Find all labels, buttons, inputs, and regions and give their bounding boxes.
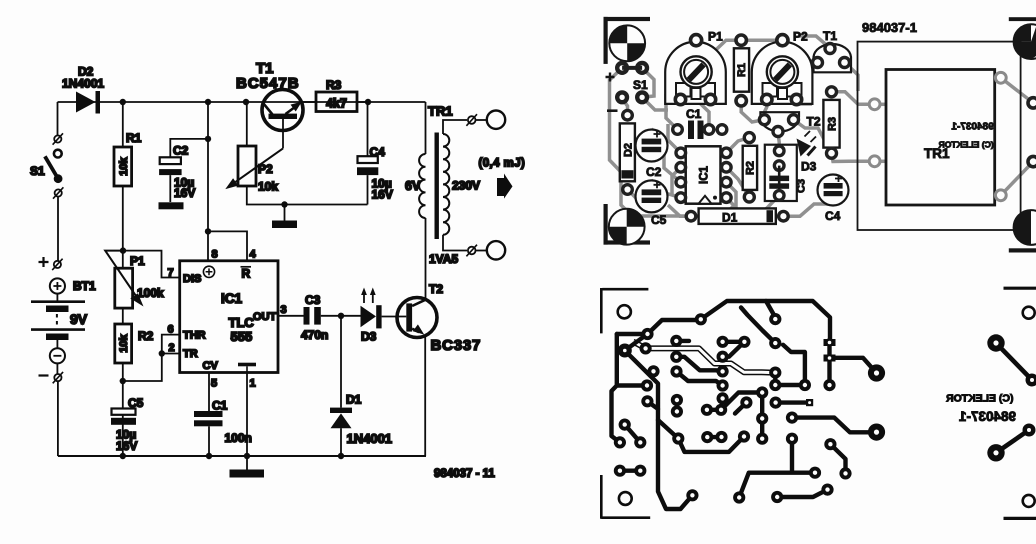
svg-text:1N4001: 1N4001 [347, 431, 393, 446]
wire R1 to P1 [122, 186, 124, 268]
node junction C2 branch top [205, 99, 211, 105]
svg-text:C1: C1 [212, 399, 228, 413]
ground P2/C4 [284, 205, 286, 221]
mirrored copyright on component side [938, 122, 994, 150]
TR1 body outline [886, 70, 995, 206]
svg-text:R2: R2 [745, 161, 757, 175]
wire supply to pin 8 [207, 102, 209, 261]
capacitor C1 100n [194, 399, 252, 446]
wire C2 branch [170, 139, 208, 157]
svg-text:TR1: TR1 [428, 104, 453, 119]
wire left drop to switch [57, 102, 59, 135]
capacitor C5 10u 16V [111, 396, 144, 453]
svg-text:CV: CV [203, 360, 219, 372]
right partial board: mounting hole bottom [1023, 495, 1035, 507]
capacitor C2 10u 16V [159, 144, 195, 201]
wire C1 to rail [208, 426, 210, 456]
svg-text:984037-1: 984037-1 [951, 122, 994, 133]
node junction P1 top [120, 247, 126, 253]
node junction D1 ground [338, 453, 344, 459]
svg-text:D3: D3 [361, 330, 377, 344]
svg-text:R3: R3 [326, 78, 342, 92]
transformer TR1 secondary 230V [443, 134, 449, 235]
svg-text:C3: C3 [305, 293, 321, 307]
svg-text:C5: C5 [128, 396, 144, 410]
trace p46 to square [776, 400, 806, 404]
copper side: corner bracket bottom-left [601, 475, 650, 519]
trace p10 to p32 [677, 372, 723, 386]
svg-text:T2: T2 [807, 115, 821, 129]
PCB corner bracket bottom-left [604, 204, 608, 245]
copper side: mounting hole top-left [618, 305, 631, 318]
wire P2 bottom / ground branch to C4 [247, 186, 368, 205]
transistor T2 footprint [759, 112, 820, 136]
potentiometer P1 100k [105, 251, 164, 309]
capacitor C3 footprint [765, 145, 808, 201]
svg-text:(C) ELEKTOR: (C) ELEKTOR [946, 393, 1014, 405]
wire C2 to ground [169, 175, 171, 202]
svg-text:2: 2 [169, 342, 175, 354]
transformer TR1 primary 6V [419, 154, 425, 218]
small pads [641, 328, 653, 340]
minus label [607, 109, 618, 112]
svg-text:C2: C2 [173, 144, 189, 158]
svg-text:BC337: BC337 [431, 337, 482, 354]
node junction pin2 [159, 350, 165, 356]
svg-text:10k: 10k [258, 180, 278, 194]
resistor R1 10k [114, 102, 142, 186]
node junction ground stub [281, 201, 287, 207]
trace big pad down [625, 351, 658, 410]
wire secondary top terminal [443, 120, 467, 134]
ground C2 [159, 202, 184, 209]
trace p52 to p53 [830, 444, 845, 473]
trace square pad branch to output [830, 340, 877, 386]
svg-text:10k: 10k [118, 333, 130, 352]
right partial board: pad and trace top [996, 343, 1032, 380]
TR1 pads [869, 72, 1006, 200]
svg-text:IC1: IC1 [699, 165, 711, 184]
trace p49 tee [739, 439, 815, 498]
right partial board: mirrored copyright [946, 393, 1016, 425]
transformer board outline [858, 42, 1021, 230]
IC1 footprint [676, 146, 731, 203]
electrolytic C2 [636, 130, 668, 180]
svg-text:984037 - 11: 984037 - 11 [434, 468, 495, 480]
svg-text:7: 7 [168, 267, 174, 279]
svg-text:P1: P1 [708, 30, 723, 44]
diode D1 1N4001 [330, 316, 392, 456]
svg-text:C5: C5 [651, 213, 667, 227]
svg-text:555: 555 [231, 329, 253, 344]
wire pin1 to rail [246, 373, 248, 470]
PCB corner bracket top-right [1009, 17, 1036, 21]
trimmer P1 [665, 30, 726, 105]
svg-text:1: 1 [250, 378, 256, 390]
transistor T1 footprint [813, 29, 852, 72]
potentiometer P2 10k [225, 102, 283, 194]
right partial board: pad and trace bottom [996, 430, 1029, 453]
electrolytic C5 [636, 180, 668, 227]
diode D2 1N4001 [62, 65, 104, 114]
LED D3 footprint [797, 131, 817, 174]
wire battery to bottom rail [57, 381, 59, 456]
svg-text:IC1: IC1 [221, 291, 243, 306]
S1 pads [617, 63, 647, 102]
capacitor C3 470n [301, 293, 328, 342]
resistor R1 footprint [734, 35, 749, 106]
svg-text:6: 6 [168, 324, 174, 336]
svg-text:S1: S1 [633, 78, 648, 92]
svg-text:DIS: DIS [183, 273, 201, 285]
trace big C channel [658, 409, 692, 509]
right partial board: bracket bottom [1004, 517, 1036, 520]
registration target bottom-right [1014, 210, 1036, 245]
svg-text:(0,4 mJ): (0,4 mJ) [479, 158, 526, 170]
svg-text:T2: T2 [429, 282, 443, 296]
capacitor C4 10u 16V [357, 102, 393, 205]
trace p34 to p30 [723, 342, 745, 357]
trace left rail [612, 334, 648, 442]
svg-text:D2: D2 [622, 143, 634, 157]
PCB component side: corner bracket top-left [604, 17, 1036, 253]
node junction R2 bottom [120, 378, 126, 384]
trace p54 to p55 [777, 490, 827, 497]
svg-text:D3: D3 [801, 160, 817, 174]
svg-text:9V: 9V [70, 311, 88, 327]
node junction P2/T1 top [243, 99, 249, 105]
node junction pin1 ground [244, 453, 250, 459]
trace dumbbells [620, 341, 775, 471]
svg-text:16V: 16V [372, 188, 393, 202]
hollow wide traces (under) [633, 342, 772, 373]
svg-text:3: 3 [281, 304, 287, 316]
svg-text:R1: R1 [736, 63, 748, 77]
ground main [230, 470, 265, 478]
big pads [618, 344, 632, 358]
svg-text:5: 5 [211, 378, 217, 390]
copper pads [614, 313, 885, 504]
svg-text:4: 4 [250, 249, 257, 261]
trace hook to p28 [741, 308, 775, 344]
wire pin5 to C1 [208, 373, 210, 412]
trace pad1 to big pad [625, 334, 648, 351]
node junction C1 ground [206, 453, 212, 459]
svg-text:P2: P2 [793, 30, 808, 44]
svg-text:984037-1: 984037-1 [958, 409, 1016, 424]
resistor R2 footprint [743, 133, 757, 202]
node junction C2 tap [205, 136, 211, 142]
wire bottom ground rail [58, 455, 426, 457]
resistor R3 footprint [823, 87, 839, 158]
wire D3 to T2 base [382, 316, 407, 318]
trimmer P2 [752, 30, 813, 105]
capacitor C1 footprint [673, 107, 727, 139]
svg-text:BT1: BT1 [73, 279, 96, 293]
copper traces [612, 301, 877, 509]
battery BT1 9V [31, 257, 96, 383]
svg-text:P1: P1 [130, 254, 145, 268]
svg-text:C4: C4 [370, 145, 386, 159]
svg-text:TR: TR [183, 348, 198, 360]
trace p48 to output pad [792, 418, 877, 433]
svg-text:(C) ELEKTOR: (C) ELEKTOR [938, 140, 994, 150]
trace p15-p17 [625, 425, 641, 443]
wire C3 to D3 [321, 315, 361, 317]
resistor R3 4k7 [303, 78, 368, 112]
diode D1 footprint [686, 208, 788, 224]
svg-text:R3: R3 [827, 117, 839, 131]
wire pin7 DIS from P1 node [123, 251, 180, 278]
switch S1 [30, 133, 63, 198]
node junction R1 top [120, 99, 126, 105]
svg-text:8: 8 [212, 249, 218, 261]
PCB component side: gray traces [610, 36, 1034, 216]
output block arrow [497, 174, 513, 199]
LED D3 [361, 288, 382, 344]
svg-text:4k7: 4k7 [326, 97, 347, 111]
svg-text:OUT: OUT [253, 311, 277, 323]
wire T2 collector up / emitter down [424, 102, 426, 456]
svg-text:BC547B: BC547B [236, 75, 300, 92]
svg-text:6V: 6V [405, 179, 421, 193]
PCB corner bracket bottom-right [1009, 248, 1036, 252]
svg-text:16V: 16V [174, 186, 195, 200]
wire pin 4 [208, 231, 247, 260]
copper side: corner bracket top-left [601, 288, 648, 333]
svg-text:230V: 230V [452, 179, 480, 193]
IC1 TLC555 [168, 249, 287, 390]
svg-text:16V: 16V [116, 439, 137, 453]
wire R2 to C5 and ground rail [122, 363, 124, 456]
plus label [606, 73, 615, 82]
svg-text:D1: D1 [722, 211, 738, 225]
trace p28 short [723, 340, 745, 344]
trace p37 riser [783, 345, 805, 385]
svg-text:T1: T1 [823, 29, 837, 43]
svg-text:984037-1: 984037-1 [862, 20, 917, 35]
transistor T2 BC337 [397, 282, 481, 354]
trace p26 to p43 [721, 393, 762, 410]
right partial board: mounting hole top [1023, 307, 1035, 319]
svg-text:THR: THR [183, 330, 206, 342]
svg-text:TLC: TLC [229, 315, 255, 330]
registration target top-right [1014, 24, 1036, 59]
node junction C4 top [365, 99, 371, 105]
svg-text:1N4001: 1N4001 [62, 77, 104, 91]
svg-text:R2: R2 [138, 329, 154, 343]
svg-text:P2: P2 [258, 162, 273, 176]
trace IC row left [676, 357, 722, 372]
svg-text:R1: R1 [126, 131, 142, 145]
trace stub p58 [735, 403, 746, 414]
transformer TR1 core [435, 133, 439, 240]
svg-text:R: R [242, 267, 251, 281]
svg-text:C3: C3 [796, 179, 808, 193]
svg-text:C4: C4 [825, 209, 841, 223]
trace p36 to p37 [775, 383, 805, 387]
svg-text:C1: C1 [686, 107, 702, 121]
copper side: mounting hole bottom-left [619, 492, 632, 505]
wire R2 bottom to pins 2 and 6 [123, 335, 180, 381]
node junction C5 ground [120, 453, 126, 459]
svg-text:C2: C2 [646, 165, 662, 179]
svg-text:100k: 100k [137, 286, 164, 300]
trace p21 bottom run [678, 437, 744, 452]
svg-text:470n: 470n [301, 328, 328, 342]
right partial board: bracket top [1004, 287, 1036, 290]
wire pin3 OUT to C3 [278, 315, 304, 317]
diode D2 outline [620, 110, 635, 194]
registration target top-left [609, 25, 645, 61]
registration target bottom-left [609, 209, 645, 245]
wire P1 to R2 [122, 308, 124, 324]
node junction D1 tap [338, 313, 344, 319]
trace supply top run [617, 301, 830, 340]
wire switch to battery [57, 197, 59, 261]
trace p43 vertical [760, 393, 764, 439]
svg-text:1VA5: 1VA5 [429, 252, 458, 266]
transistor T1 BC547B [236, 60, 303, 148]
pad holes [618, 317, 879, 500]
svg-text:10k: 10k [118, 156, 130, 175]
resistor R2 10k [115, 324, 154, 363]
svg-text:D1: D1 [346, 393, 362, 407]
electrolytic C4 [818, 175, 849, 224]
wire top supply rail [58, 101, 426, 103]
trace branch to p21 [658, 420, 678, 439]
terminal bottom [468, 247, 476, 255]
node junction pin 4 tap [205, 228, 211, 234]
wire secondary bottom terminal [443, 235, 467, 251]
terminal top [468, 116, 476, 124]
trace stub to p27 [766, 301, 776, 319]
svg-text:S1: S1 [30, 164, 45, 178]
